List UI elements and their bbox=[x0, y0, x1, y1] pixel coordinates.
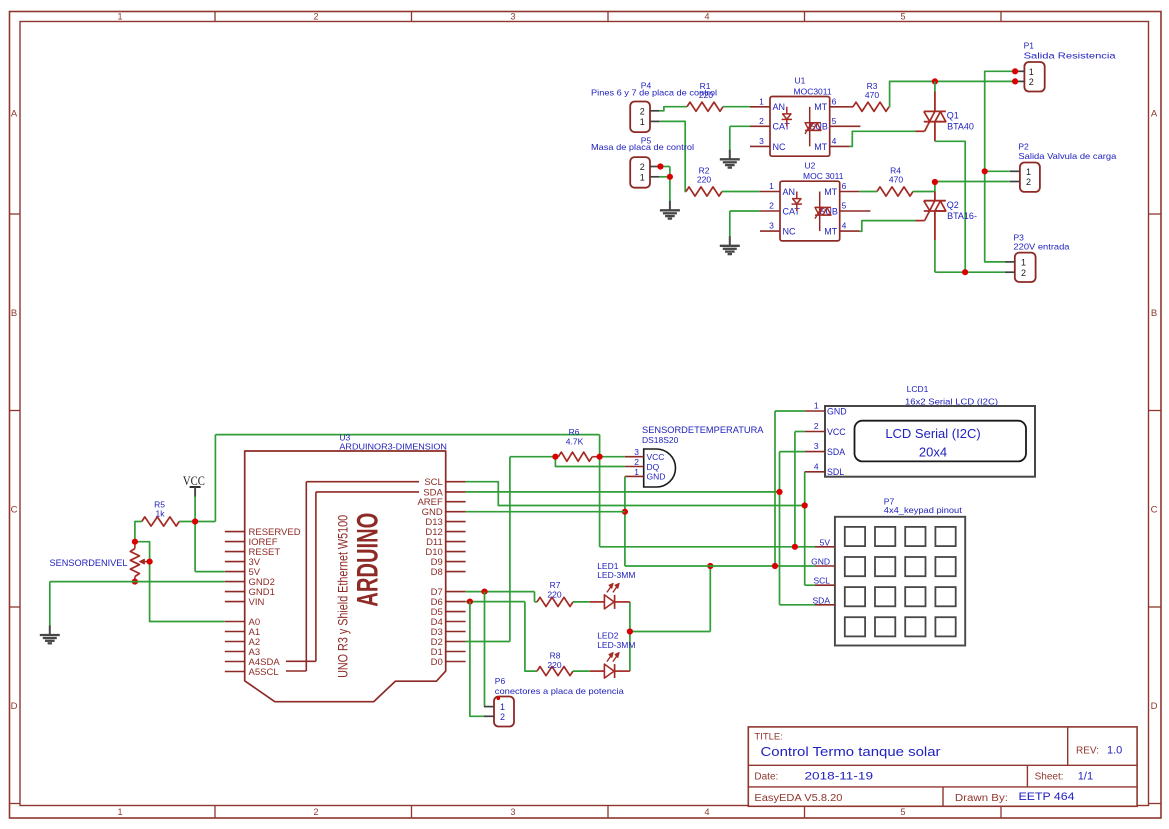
svg-text:BTA40: BTA40 bbox=[947, 122, 974, 132]
svg-text:MT: MT bbox=[814, 142, 827, 152]
svg-text:2: 2 bbox=[769, 201, 774, 211]
svg-text:conectores a placa de potencia: conectores a placa de potencia bbox=[495, 686, 624, 696]
svg-text:2: 2 bbox=[634, 457, 639, 467]
svg-text:1: 1 bbox=[814, 401, 819, 411]
svg-text:AN: AN bbox=[783, 187, 796, 197]
svg-text:VCC: VCC bbox=[827, 427, 846, 437]
svg-text:EasyEDA V5.8.20: EasyEDA V5.8.20 bbox=[754, 793, 842, 804]
svg-text:A: A bbox=[11, 108, 18, 119]
svg-text:A: A bbox=[1151, 108, 1158, 119]
svg-text:220: 220 bbox=[699, 90, 713, 100]
svg-text:GND: GND bbox=[647, 472, 666, 482]
svg-text:SENSORDENIVEL: SENSORDENIVEL bbox=[50, 558, 128, 568]
svg-text:4: 4 bbox=[704, 11, 709, 21]
svg-text:DS18S20: DS18S20 bbox=[642, 435, 679, 445]
svg-text:6: 6 bbox=[832, 96, 837, 106]
svg-text:4: 4 bbox=[704, 807, 709, 817]
svg-text:1: 1 bbox=[1026, 167, 1031, 177]
svg-text:220V entrada: 220V entrada bbox=[1014, 242, 1070, 252]
svg-text:220: 220 bbox=[697, 175, 711, 185]
svg-text:A5SCL: A5SCL bbox=[249, 667, 279, 678]
svg-text:16x2 Serial LCD (I2C): 16x2 Serial LCD (I2C) bbox=[905, 396, 998, 406]
svg-text:Salida Resistencia: Salida Resistencia bbox=[1024, 50, 1116, 60]
svg-text:5V: 5V bbox=[820, 537, 831, 547]
svg-text:P2: P2 bbox=[1018, 141, 1029, 151]
svg-text:CAT: CAT bbox=[773, 122, 791, 132]
svg-text:VCC: VCC bbox=[647, 452, 665, 462]
svg-text:C: C bbox=[1151, 504, 1158, 515]
svg-text:B: B bbox=[1151, 308, 1157, 319]
svg-text:220: 220 bbox=[547, 660, 561, 670]
svg-text:4.7K: 4.7K bbox=[566, 437, 584, 447]
svg-text:D0: D0 bbox=[431, 657, 443, 668]
svg-text:NC: NC bbox=[773, 142, 786, 152]
svg-text:3: 3 bbox=[814, 441, 819, 451]
svg-text:ARDUINO: ARDUINO bbox=[352, 513, 385, 607]
svg-text:ARDUINOR3-DIMENSION: ARDUINOR3-DIMENSION bbox=[339, 442, 447, 452]
svg-text:SCL: SCL bbox=[813, 576, 830, 586]
svg-text:3: 3 bbox=[769, 221, 774, 231]
svg-text:EETP 464: EETP 464 bbox=[1019, 791, 1075, 803]
svg-text:1: 1 bbox=[117, 807, 122, 817]
svg-text:TITLE:: TITLE: bbox=[754, 731, 783, 742]
svg-text:5: 5 bbox=[832, 116, 837, 126]
svg-text:2: 2 bbox=[814, 421, 819, 431]
svg-text:1: 1 bbox=[769, 181, 774, 191]
svg-text:1k: 1k bbox=[156, 509, 166, 519]
svg-text:R6: R6 bbox=[569, 427, 580, 437]
svg-text:4: 4 bbox=[842, 221, 847, 231]
svg-text:20x4: 20x4 bbox=[919, 444, 947, 459]
svg-text:2: 2 bbox=[1026, 177, 1031, 187]
svg-text:MT: MT bbox=[814, 102, 827, 112]
svg-text:2: 2 bbox=[500, 712, 505, 722]
svg-text:2: 2 bbox=[1021, 268, 1026, 278]
svg-text:GND: GND bbox=[827, 406, 847, 416]
svg-text:6: 6 bbox=[842, 181, 847, 191]
svg-text:LED-3MM: LED-3MM bbox=[597, 640, 635, 650]
svg-text:470: 470 bbox=[865, 90, 879, 100]
svg-text:2: 2 bbox=[640, 106, 645, 116]
svg-text:1: 1 bbox=[500, 702, 505, 712]
svg-text:3: 3 bbox=[510, 807, 515, 817]
svg-text:MT: MT bbox=[824, 227, 837, 237]
svg-text:BTA16-: BTA16- bbox=[947, 211, 977, 221]
svg-text:VCC: VCC bbox=[183, 473, 205, 488]
svg-text:4x4_keypad pinout: 4x4_keypad pinout bbox=[884, 505, 963, 515]
svg-text:2018-11-19: 2018-11-19 bbox=[805, 771, 874, 783]
svg-text:Date:: Date: bbox=[754, 772, 778, 783]
svg-text:REV:: REV: bbox=[1076, 746, 1099, 757]
svg-text:1: 1 bbox=[1029, 67, 1034, 77]
svg-text:SDL: SDL bbox=[827, 467, 844, 477]
svg-text:D8: D8 bbox=[431, 567, 443, 578]
svg-text:MOC3011: MOC3011 bbox=[794, 86, 832, 96]
svg-text:UNO R3 y Shield Ethernet W5100: UNO R3 y Shield Ethernet W5100 bbox=[334, 515, 350, 678]
svg-text:1/1: 1/1 bbox=[1078, 771, 1093, 783]
svg-text:MT: MT bbox=[824, 187, 837, 197]
svg-text:1: 1 bbox=[117, 11, 122, 21]
svg-text:5: 5 bbox=[842, 201, 847, 211]
svg-text:LED-3MM: LED-3MM bbox=[597, 570, 635, 580]
svg-text:LCD Serial (I2C): LCD Serial (I2C) bbox=[885, 426, 980, 441]
svg-text:1: 1 bbox=[759, 96, 764, 106]
svg-text:NC: NC bbox=[783, 227, 796, 237]
svg-text:1: 1 bbox=[640, 117, 645, 127]
svg-text:5: 5 bbox=[900, 11, 905, 21]
svg-text:220: 220 bbox=[547, 590, 561, 600]
svg-text:P1: P1 bbox=[1024, 40, 1035, 50]
svg-text:4: 4 bbox=[814, 461, 819, 471]
svg-text:C: C bbox=[11, 504, 18, 515]
svg-text:DQ: DQ bbox=[647, 462, 660, 472]
svg-text:2: 2 bbox=[640, 162, 645, 172]
svg-text:B: B bbox=[11, 308, 17, 319]
svg-text:R8: R8 bbox=[550, 651, 561, 661]
svg-text:4: 4 bbox=[832, 136, 837, 146]
svg-text:Masa de placa de control: Masa de placa de control bbox=[591, 142, 694, 152]
svg-text:470: 470 bbox=[889, 175, 903, 185]
svg-text:U2: U2 bbox=[805, 160, 816, 170]
svg-text:3: 3 bbox=[510, 11, 515, 21]
svg-text:Control Termo tanque solar: Control Termo tanque solar bbox=[761, 744, 942, 759]
svg-text:Sheet:: Sheet: bbox=[1035, 772, 1064, 783]
svg-text:MOC 3011: MOC 3011 bbox=[803, 171, 844, 181]
svg-text:U1: U1 bbox=[795, 76, 806, 86]
svg-text:P6: P6 bbox=[495, 676, 506, 686]
svg-text:2: 2 bbox=[313, 807, 318, 817]
svg-text:1.0: 1.0 bbox=[1107, 745, 1122, 757]
svg-text:D: D bbox=[1151, 701, 1158, 712]
svg-text:Q2: Q2 bbox=[947, 200, 959, 210]
svg-text:2: 2 bbox=[759, 116, 764, 126]
svg-text:1: 1 bbox=[1021, 258, 1026, 268]
svg-text:2: 2 bbox=[1029, 77, 1034, 87]
svg-text:2: 2 bbox=[313, 11, 318, 21]
svg-text:1: 1 bbox=[640, 172, 645, 182]
svg-text:CAT: CAT bbox=[783, 206, 801, 216]
svg-text:D: D bbox=[11, 701, 18, 712]
svg-text:AN: AN bbox=[773, 102, 786, 112]
svg-text:1: 1 bbox=[634, 467, 639, 477]
svg-text:3: 3 bbox=[634, 447, 639, 457]
svg-text:SDA: SDA bbox=[813, 595, 831, 605]
svg-text:R7: R7 bbox=[550, 580, 561, 590]
svg-text:Drawn By:: Drawn By: bbox=[955, 793, 1008, 804]
svg-text:Q1: Q1 bbox=[947, 111, 959, 121]
svg-text:5: 5 bbox=[900, 807, 905, 817]
svg-text:SDA: SDA bbox=[827, 447, 845, 457]
svg-text:VIN: VIN bbox=[249, 597, 265, 608]
svg-text:LCD1: LCD1 bbox=[907, 384, 929, 394]
svg-text:Salida Valvula de carga: Salida Valvula de carga bbox=[1018, 151, 1116, 161]
svg-text:GND: GND bbox=[811, 557, 830, 567]
svg-text:3: 3 bbox=[759, 136, 764, 146]
